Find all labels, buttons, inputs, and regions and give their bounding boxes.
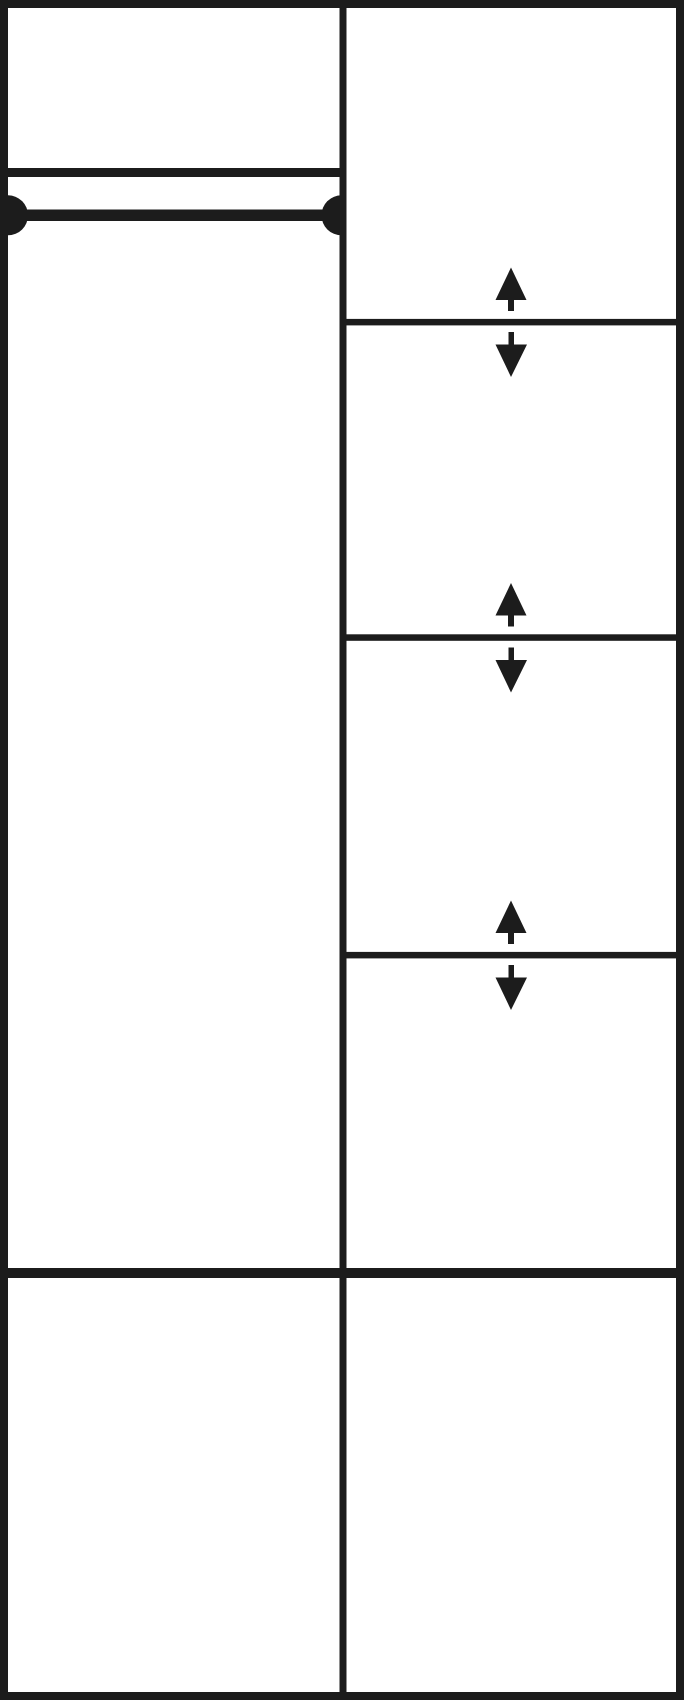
center vertical partition [340, 8, 347, 1692]
rail mount right (half-disc on divider) [322, 195, 342, 235]
bottom horizontal divider [0, 1268, 684, 1278]
adjustable shelf 2 (right column) [347, 634, 677, 641]
adjustable shelf 3 (right column) [347, 952, 677, 959]
fixed top shelf (left column) [8, 168, 340, 177]
clothes rail [8, 210, 343, 222]
up arrow above shelf 1 [496, 268, 527, 312]
down arrow below shelf 2 [496, 648, 528, 693]
up arrow above shelf 2 [496, 583, 527, 627]
rail mount left [0, 195, 28, 235]
down arrow below shelf 1 [496, 332, 528, 377]
down arrow below shelf 3 [496, 965, 528, 1010]
adjustable shelf 1 (right column) [347, 319, 677, 326]
up arrow above shelf 3 [496, 901, 527, 945]
